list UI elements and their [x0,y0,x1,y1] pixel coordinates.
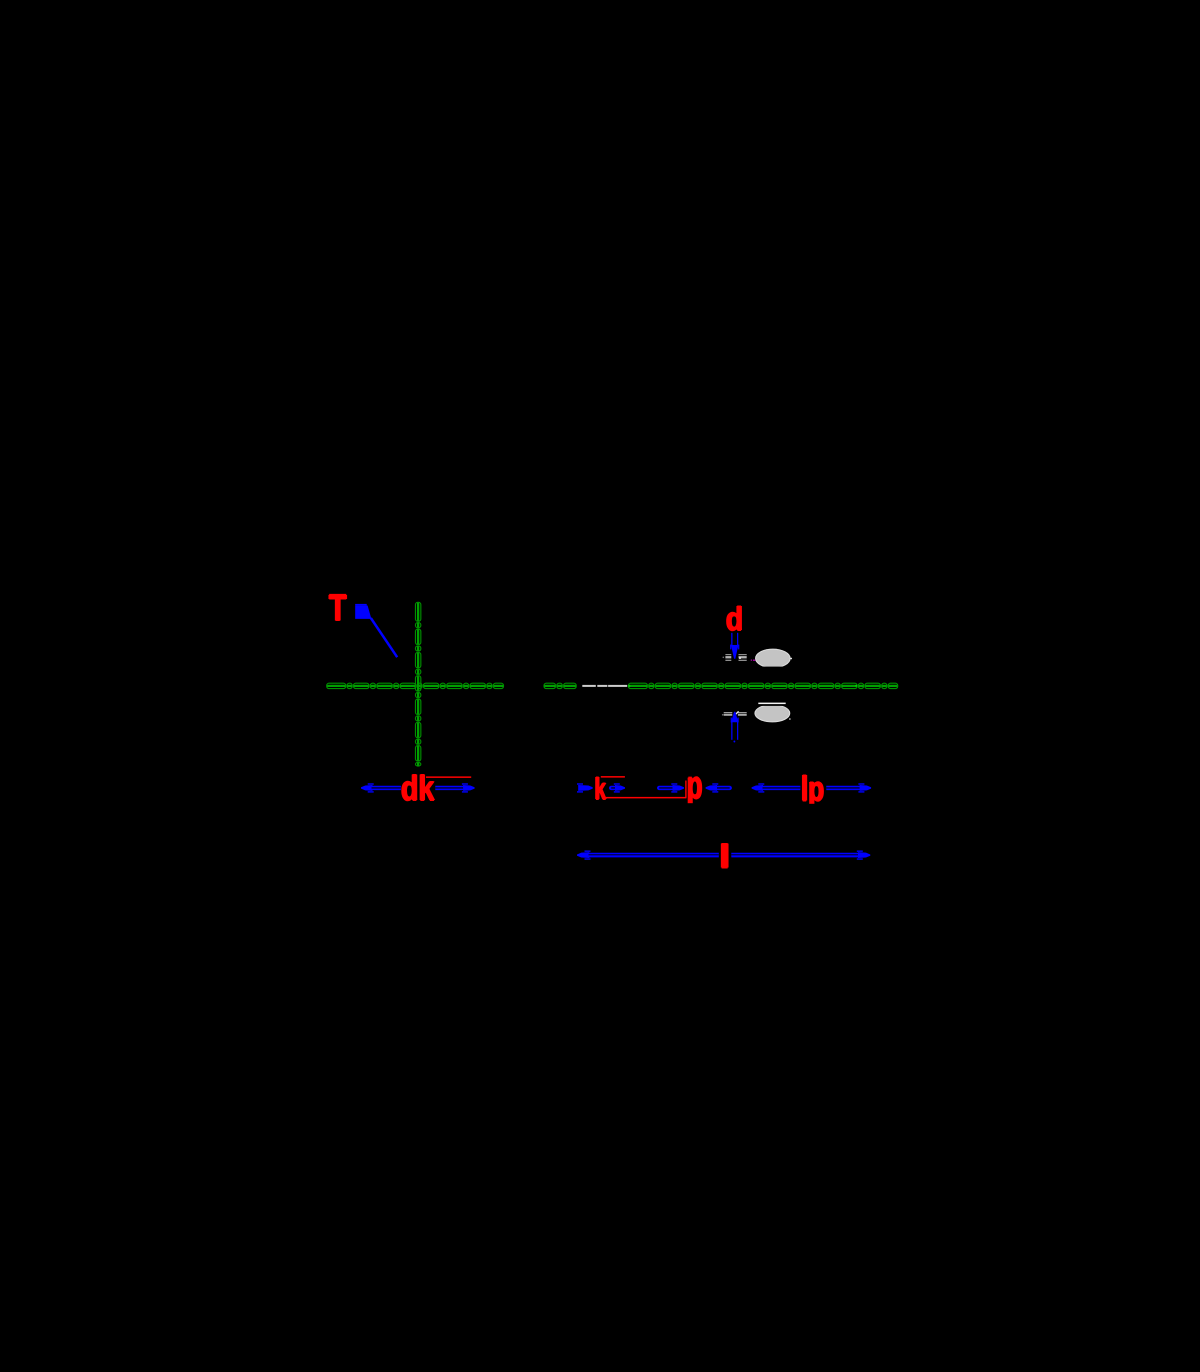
red connector line k to p [604,797,686,799]
k dimension right arrow [611,783,625,792]
shank bottom edge lines at d dimension [722,711,747,715]
lp dimension left arrow [752,783,801,792]
svg-text:T: T [329,588,347,629]
red riser at p [685,781,686,798]
lp dimension right arrow [826,783,871,792]
p dimension left arrow [659,783,684,792]
dk dimension left arrow [361,783,401,792]
label T [328,586,347,629]
magenta marks left of upper ellipse [751,660,756,661]
label d [725,599,744,638]
centerline vertical, front view [415,602,420,766]
red leader line from k top [601,776,625,778]
svg-text:k: k [595,774,607,807]
centerline horizontal, side view right part [628,683,897,688]
label p [686,762,703,810]
label l [718,837,732,876]
break dashes on axis [582,685,627,687]
white edge line above lower ellipse [758,703,785,705]
k dimension left arrowhead [577,783,593,792]
label k [594,773,607,807]
svg-text:d: d [726,601,743,639]
svg-text:lp: lp [801,770,824,810]
dk dimension right arrow [435,783,474,792]
red leader line from dk [426,776,471,778]
leader arrow for T [355,604,397,657]
svg-text:l: l [719,839,731,877]
svg-text:dk: dk [401,769,434,809]
label lp [800,768,825,811]
centerline horizontal, front view [327,683,504,688]
d dimension upper arrow [730,633,739,659]
lower wing ellipse [753,702,793,722]
bright spark near centerline right end [855,685,857,687]
svg-text:p: p [687,764,703,809]
l dimension right arrow [731,850,870,859]
label dk [400,767,435,808]
l dimension left arrow [577,850,719,859]
bright spark at centerline resume [628,685,630,687]
p dimension right arrow [706,783,730,792]
upper wing ellipse [753,649,793,671]
d dimension lower arrow [731,712,739,743]
centerline horizontal, side view left part [544,683,576,688]
shank top edge lines at d dimension [723,654,747,661]
